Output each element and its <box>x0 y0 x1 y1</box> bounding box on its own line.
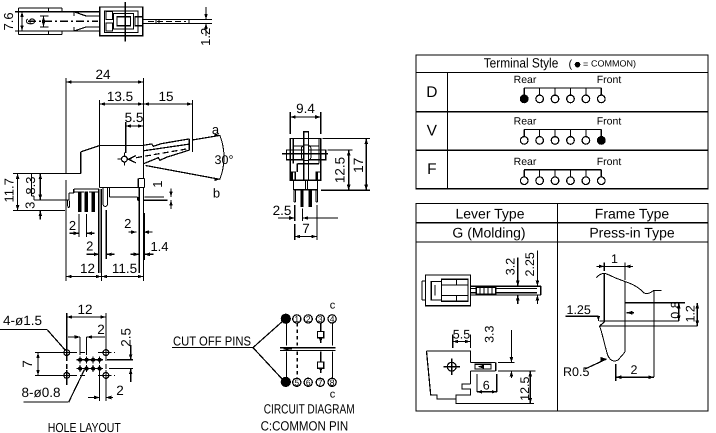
svg-text:2: 2 <box>97 322 105 337</box>
svg-text:5.5: 5.5 <box>453 328 470 342</box>
svg-text:4: 4 <box>330 314 335 324</box>
svg-text:11.5: 11.5 <box>112 261 137 276</box>
svg-text:a: a <box>212 122 220 137</box>
svg-text:6: 6 <box>483 379 490 393</box>
svg-text:8-ø0.8: 8-ø0.8 <box>22 385 61 400</box>
svg-text:0.8: 0.8 <box>668 301 682 318</box>
svg-text:12: 12 <box>80 261 95 276</box>
svg-text:1: 1 <box>294 314 299 324</box>
svg-text:F: F <box>427 161 436 178</box>
svg-text:2: 2 <box>86 238 93 253</box>
svg-text:2.25: 2.25 <box>523 252 537 276</box>
svg-text:C:COMMON PIN: C:COMMON PIN <box>261 418 349 433</box>
svg-text:5.5: 5.5 <box>125 110 144 125</box>
svg-text:(: ( <box>569 59 573 71</box>
svg-text:CUT OFF PINS: CUT OFF PINS <box>173 334 251 349</box>
svg-text:13.5: 13.5 <box>107 89 133 104</box>
svg-text:c: c <box>330 388 336 400</box>
svg-text:30°: 30° <box>215 153 234 167</box>
svg-text:2: 2 <box>631 363 638 377</box>
svg-text:12.5: 12.5 <box>333 157 348 183</box>
svg-text:2.5: 2.5 <box>273 203 292 218</box>
svg-text:1: 1 <box>150 180 165 187</box>
svg-text:Front: Front <box>597 74 622 86</box>
svg-text:1: 1 <box>611 252 618 266</box>
svg-text:8.3: 8.3 <box>23 177 38 195</box>
svg-text:7: 7 <box>20 360 35 368</box>
svg-text:2: 2 <box>69 218 76 233</box>
svg-text:6: 6 <box>306 377 311 387</box>
svg-text:1.25: 1.25 <box>567 303 591 317</box>
svg-text:Rear: Rear <box>514 156 537 168</box>
svg-text:7.6: 7.6 <box>1 12 16 30</box>
svg-text:17: 17 <box>351 158 366 173</box>
svg-text:=: = <box>583 59 588 69</box>
svg-text:Terminal Style: Terminal Style <box>484 56 559 71</box>
svg-text:15: 15 <box>158 89 173 104</box>
svg-text:HOLE LAYOUT: HOLE LAYOUT <box>48 420 121 433</box>
svg-text:1.4: 1.4 <box>150 239 168 254</box>
svg-text:Press-in Type: Press-in Type <box>589 225 675 241</box>
svg-text:3: 3 <box>318 314 323 324</box>
svg-text:G (Molding): G (Molding) <box>452 225 525 241</box>
svg-text:D: D <box>426 84 437 101</box>
svg-text:4-ø1.5: 4-ø1.5 <box>3 313 42 328</box>
svg-text:c: c <box>330 299 336 311</box>
svg-text:2: 2 <box>306 314 311 324</box>
svg-text:R0.5: R0.5 <box>563 365 589 379</box>
svg-text:2: 2 <box>116 383 124 398</box>
svg-text:3.3: 3.3 <box>483 325 497 342</box>
svg-text:11.7: 11.7 <box>2 178 17 202</box>
svg-text:3: 3 <box>23 202 38 209</box>
svg-text:COMMON): COMMON) <box>591 59 636 69</box>
svg-text:6: 6 <box>23 18 38 25</box>
svg-text:9.4: 9.4 <box>296 101 315 116</box>
svg-text:24: 24 <box>95 67 111 82</box>
svg-text:7: 7 <box>318 377 323 387</box>
svg-text:5: 5 <box>294 377 299 387</box>
svg-text:CIRCUIT DIAGRAM: CIRCUIT DIAGRAM <box>264 401 355 416</box>
svg-text:2.5: 2.5 <box>119 328 134 347</box>
svg-text:12: 12 <box>77 302 92 317</box>
svg-text:Rear: Rear <box>514 74 537 86</box>
svg-text:Frame Type: Frame Type <box>595 205 670 221</box>
svg-text:8: 8 <box>330 377 335 387</box>
svg-text:1.2: 1.2 <box>198 28 213 46</box>
svg-text:V: V <box>427 123 438 140</box>
svg-text:Front: Front <box>597 116 622 128</box>
svg-text:b: b <box>213 186 220 201</box>
svg-text:Front: Front <box>597 156 622 168</box>
svg-text:2: 2 <box>124 216 131 231</box>
svg-text:Rear: Rear <box>514 116 537 128</box>
svg-text:1.2: 1.2 <box>683 305 697 322</box>
svg-text:12.5: 12.5 <box>518 376 532 400</box>
svg-text:Lever Type: Lever Type <box>455 205 524 221</box>
svg-text:7: 7 <box>302 221 310 236</box>
svg-text:3.2: 3.2 <box>503 258 517 275</box>
